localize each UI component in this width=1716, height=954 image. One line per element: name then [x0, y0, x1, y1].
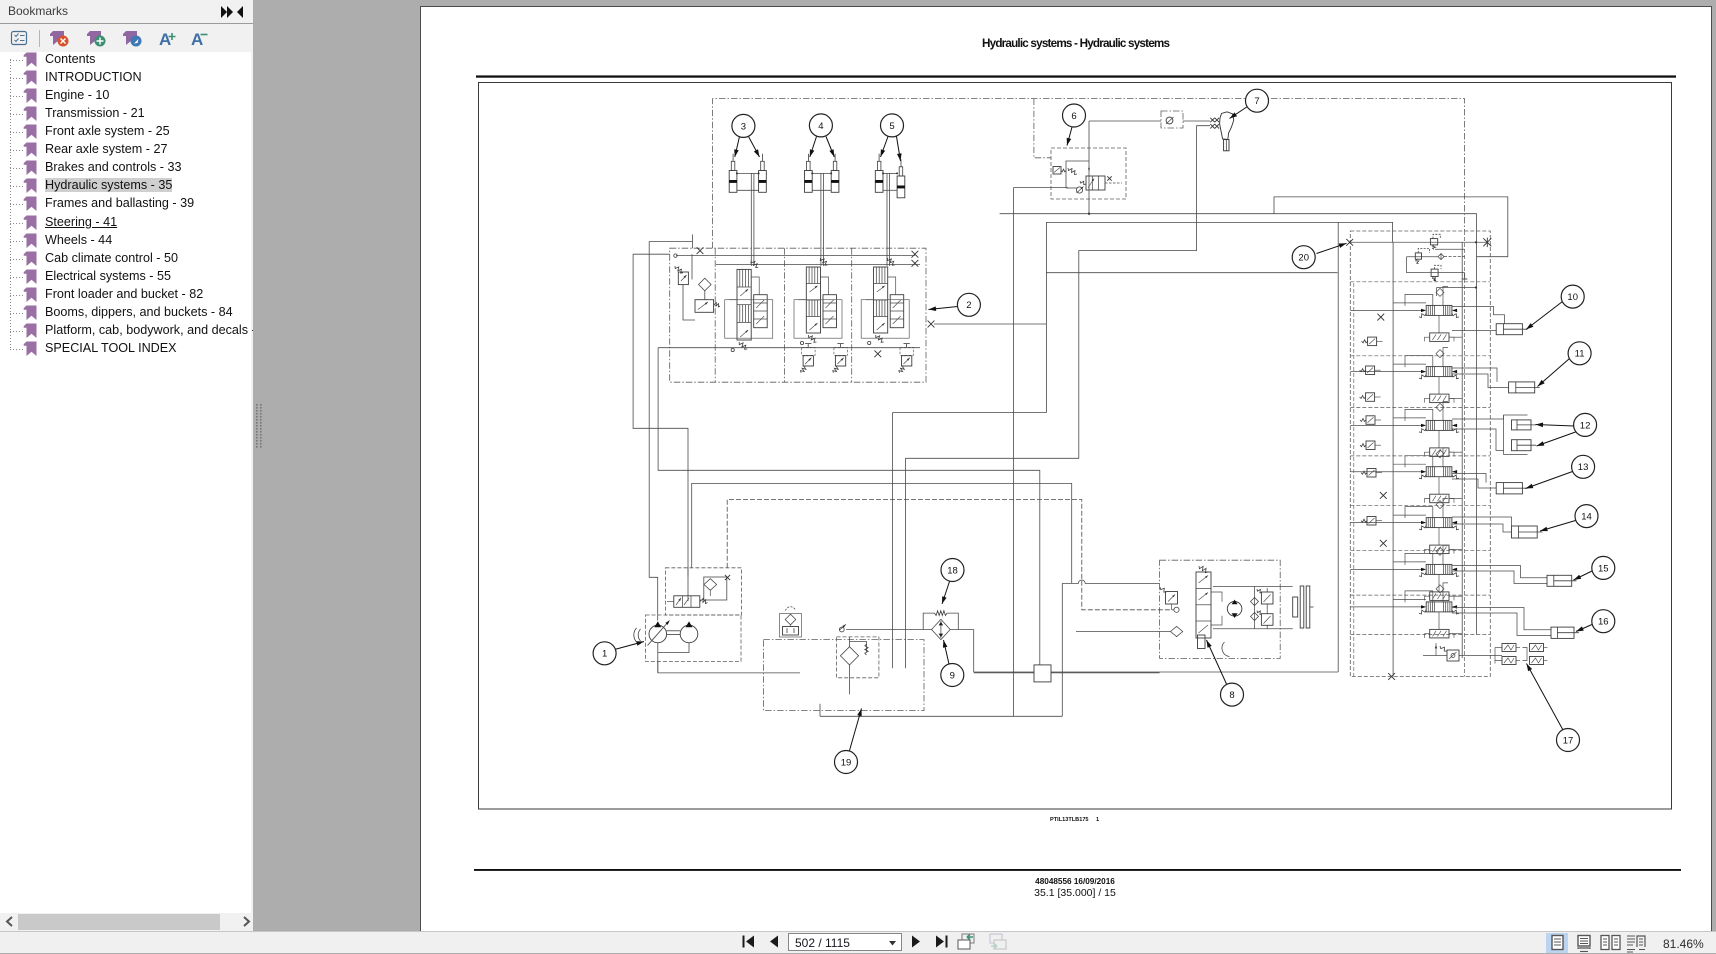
svg-text:6: 6: [1071, 111, 1076, 122]
wire: mid vertical to reservoir area: [892, 413, 894, 669]
wire: return trunk long vertical: [1013, 187, 1068, 189]
svg-text:18: 18: [947, 565, 958, 576]
enclosure: reservoir box: [763, 640, 924, 711]
svg-text:Hydraulic systems - Hydraulic: Hydraulic systems - Hydraulic systems: [982, 37, 1170, 50]
wire: motor port line with check diamond: [1076, 631, 1171, 633]
callout 11: [1538, 359, 1570, 387]
bank internal supply vertical: [1392, 242, 1394, 676]
wire: bank return drop: [1337, 222, 1339, 672]
hand control lever 7: [1210, 112, 1234, 151]
wire: pilot branch to loader cylinders: [1274, 197, 1508, 257]
callout 18: [942, 582, 950, 605]
callout 3: [735, 137, 740, 158]
svg-text:16: 16: [1598, 617, 1609, 628]
enclosure: loader control valve block 2: [670, 248, 926, 382]
bank section 11 (dipper): [1350, 348, 1462, 403]
tandem gear pump 1: [634, 621, 698, 673]
wire: valve block tank line to mid verticals: [658, 348, 1040, 665]
callout 19: [850, 709, 862, 751]
svg-text:48048556 16/09/2016: 48048556 16/09/2016: [1035, 877, 1115, 886]
svg-text:PTIL13TLB175: PTIL13TLB175: [1050, 817, 1089, 823]
cylinder 16: [1452, 608, 1579, 639]
callout 4: [810, 137, 817, 158]
bank section 10 (boom): [1350, 286, 1462, 345]
callout 13: [1526, 472, 1573, 489]
cylinder 15: [1452, 566, 1577, 587]
bypass check valve with spring (items 18/9): [923, 611, 958, 640]
white PDF page: [420, 6, 1712, 931]
bank section 12 (bucket): [1350, 401, 1462, 456]
wire: load sense left riser: [649, 242, 692, 621]
callout 7: [1230, 107, 1248, 119]
callout 16: [1576, 625, 1592, 632]
wire: priority to motor spool feed: [692, 483, 1072, 583]
bank inlet relief section (arrow 20): [1407, 234, 1478, 296]
svg-text:7: 7: [1254, 96, 1259, 107]
enclosure: swing motor unit 8 box: [1160, 560, 1281, 658]
callout 15: [1574, 571, 1593, 580]
bank inner dashed edge: [1353, 283, 1355, 676]
breather / filler: [780, 607, 802, 637]
svg-text:35.1 [35.000] / 15: 35.1 [35.000] / 15: [1034, 887, 1116, 899]
cylinder 10: [1452, 307, 1528, 335]
diagram frame: [479, 83, 1672, 810]
enclosure: main circuit dash-dot boundary: [713, 99, 1465, 249]
svg-text:9: 9: [950, 670, 955, 681]
callout 12: [1536, 425, 1574, 427]
callout 1 (pump): [615, 642, 645, 650]
svg-text:1: 1: [602, 649, 607, 660]
svg-text:2: 2: [966, 300, 971, 311]
wire: bank inlet gray line: [1350, 241, 1488, 243]
junction box node: [1034, 665, 1051, 682]
cylinder 14: [1452, 517, 1543, 538]
cylinder pair 4 (loader tilt): [805, 154, 839, 266]
work section 2 of block 2: [794, 258, 842, 345]
svg-text:12: 12: [1580, 420, 1591, 431]
bank section 15: [1350, 545, 1462, 600]
cylinder pair 3 (loader lift): [729, 154, 766, 266]
wire: pilot valve 6 outlet: [1088, 213, 1090, 215]
callout 6: [1067, 127, 1072, 146]
svg-text:1: 1: [1096, 817, 1099, 823]
footer rule: [474, 869, 1681, 871]
cylinder 13: [1452, 474, 1528, 494]
svg-text:15: 15: [1598, 563, 1609, 574]
cylinder pair 5 (stabilizers): [875, 154, 905, 266]
anti-shock valve A: [801, 344, 816, 373]
suction strainer in reservoir: [840, 637, 868, 694]
svg-text:20: 20: [1298, 253, 1309, 264]
pilot pressure reducing valve 6: [1053, 161, 1122, 193]
bank section 14: [1350, 499, 1462, 554]
svg-text:13: 13: [1578, 462, 1589, 473]
callout 14: [1540, 521, 1576, 532]
wire: block outlet to X port: [893, 222, 1393, 412]
svg-text:14: 14: [1581, 512, 1592, 523]
wire: reservoir bottom return: [819, 704, 821, 717]
svg-text:3: 3: [741, 121, 746, 132]
check valve (one-way) before handle 7: [1166, 117, 1174, 124]
enclosure: check valve box near 7: [1161, 111, 1183, 128]
cylinder 11: [1452, 368, 1540, 393]
LS relief arrow symbol: [839, 624, 846, 630]
callout 5: [881, 137, 889, 158]
cylinder group 12: [1452, 415, 1536, 455]
svg-text:10: 10: [1567, 292, 1578, 303]
wire: steering line via handle: [906, 126, 1210, 669]
enclosure: return filter box: [837, 637, 879, 678]
inlet section of block 2: [674, 254, 720, 320]
callout 2 (control valve): [929, 307, 958, 310]
wire: X port stub: [934, 323, 1046, 325]
callout 20: [1317, 243, 1347, 253]
X port marks: [697, 247, 704, 254]
enclosure: backhoe valve bank box: [1350, 231, 1490, 677]
node: check diamond at motor port: [1171, 626, 1183, 636]
wire: filter to check line: [846, 629, 931, 631]
swing/drive motor unit 8 internals: [1160, 566, 1314, 657]
top rule: [476, 75, 1676, 77]
wire: pilot trunk upper: [1000, 214, 1477, 243]
enclosure: pilot valve 6 box: [1051, 148, 1126, 199]
svg-text:19: 19: [841, 757, 852, 768]
bank section 16: [1350, 583, 1462, 638]
svg-text:8: 8: [1229, 690, 1234, 701]
svg-text:11: 11: [1575, 349, 1585, 360]
enclosure: pump box: [646, 615, 742, 661]
callout 10: [1526, 302, 1563, 330]
callout 9: [944, 640, 950, 664]
wire: LS dash line to motor unit: [727, 500, 1173, 610]
wire: motor feed with crossover hop: [1062, 580, 1159, 583]
wire: cooler return line: [974, 671, 1338, 673]
enclosure: priority valve box: [665, 568, 741, 615]
valve block rails: [676, 255, 915, 257]
callout 17: [1527, 664, 1564, 731]
anti-shock valve C: [899, 344, 914, 373]
anti-shock valve B: [833, 344, 848, 373]
wire: junction to motor unit: [974, 672, 1160, 674]
wire: pump suction: [657, 661, 659, 673]
bank internal return vertical: [1461, 242, 1463, 658]
node: LS line port circle: [1174, 607, 1179, 612]
splitter drag dots: [253, 0, 264, 931]
bank section 13: [1350, 448, 1462, 503]
wire: inlet supply left riser: [633, 254, 688, 601]
wire: trunk to bank lower: [1046, 272, 1337, 274]
svg-text:4: 4: [818, 121, 823, 132]
work section 3 of block 2: [861, 258, 909, 345]
svg-text:17: 17: [1563, 735, 1574, 746]
svg-text:5: 5: [889, 121, 894, 132]
priority / flow divider valve: [667, 568, 730, 608]
work section 1 of block 2: [725, 260, 773, 351]
callout 8: [1207, 640, 1227, 684]
coupler valve group 17: [1423, 643, 1548, 665]
enclosure stub to pilot valve 6: [1034, 99, 1051, 158]
